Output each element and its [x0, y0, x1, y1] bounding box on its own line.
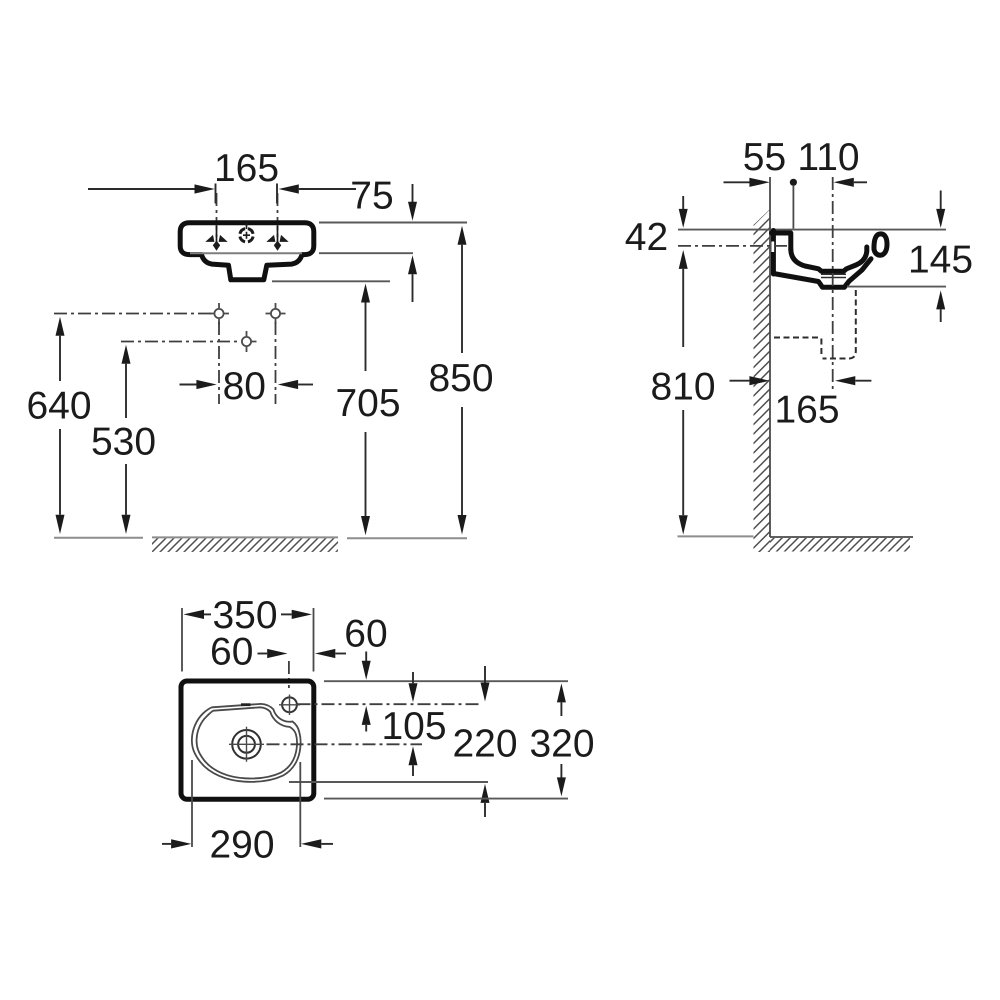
- dim 110 arrow: [834, 178, 854, 187]
- svg-text:55: 55: [743, 136, 786, 179]
- dim 145 down arrow: [940, 191, 942, 210]
- ground line right segment: [347, 537, 467, 539]
- dim 145 up arrow: [936, 290, 945, 309]
- dim 705 upper arrow and line: [361, 284, 370, 303]
- svg-text:145: 145: [908, 239, 973, 282]
- centerline left tap hole (dash-dot vertical): [216, 193, 218, 248]
- reference line drain bottom extended: [272, 280, 390, 282]
- dim 165 side left arrow: [730, 380, 750, 382]
- dim 350 left arrow: [184, 610, 205, 619]
- basin side front rim loop: [874, 234, 887, 255]
- reference line drain boss bottom: [847, 286, 946, 288]
- svg-text:165: 165: [774, 388, 839, 431]
- svg-text:290: 290: [209, 823, 274, 866]
- svg-text:850: 850: [428, 357, 493, 400]
- basin side back flange at wall: [771, 231, 776, 275]
- reference line square top extended: [324, 680, 568, 682]
- overflow mark plan: [241, 703, 251, 706]
- dim 165 left tail: [88, 188, 195, 190]
- dim 165 right arrowhead: [279, 184, 299, 193]
- dim 105 up arrow: [409, 746, 418, 765]
- bowl inner outline plan: [197, 707, 298, 778]
- dim 60 horizontal right-pointing arrow: [258, 653, 268, 655]
- hidden drain pipe top into wall: [774, 337, 820, 339]
- extension line plan left: [181, 608, 183, 672]
- dim 530: [122, 345, 131, 364]
- dim 290 left arrow: [162, 843, 171, 845]
- wall hatched band: [754, 209, 771, 552]
- dim 80 left arrow: [180, 384, 197, 386]
- dim 850 lower line and arrow: [461, 407, 463, 515]
- svg-text:80: 80: [223, 365, 266, 408]
- dim 60 vertical up arrow: [362, 706, 371, 725]
- wall surface line: [769, 177, 771, 537]
- dim 810 upper arrow and line: [679, 250, 688, 269]
- basin front rim inner line: [190, 252, 302, 254]
- dim 165 side right arrow: [835, 376, 855, 385]
- centerline right tap hole (dash-dot vertical): [277, 193, 279, 248]
- reference line rim top extended: [678, 229, 946, 231]
- svg-text:105: 105: [381, 705, 446, 748]
- basin front outline: [180, 223, 314, 280]
- reference line rim bottom extended: [319, 252, 413, 254]
- wall fixing centerline horizontal lower: [121, 341, 240, 343]
- extension line 290 left: [191, 760, 193, 847]
- drain centerline vertical: [832, 177, 834, 390]
- svg-text:530: 530: [91, 420, 156, 463]
- dim 320 down arrow: [560, 764, 562, 778]
- reference line square bottom extended: [324, 798, 568, 800]
- svg-text:165: 165: [214, 147, 279, 190]
- extension tick left of dim 165: [215, 184, 217, 204]
- svg-text:640: 640: [26, 384, 91, 427]
- floor hatched strip: [770, 538, 910, 552]
- hidden dash-dot line at fixing height: [678, 245, 788, 247]
- reference line bowl bottom extended: [289, 781, 488, 783]
- drain outer circle plan: [232, 730, 261, 759]
- floor line left of wall: [678, 535, 754, 537]
- ground hatched strip: [152, 536, 338, 538]
- extension line plan right: [313, 608, 315, 672]
- dim 42 down arrow: [682, 196, 684, 209]
- square basin body plan: [181, 681, 314, 799]
- wall fixing centerline horizontal upper: [54, 313, 213, 315]
- tap hole crosshair plan: [279, 695, 300, 716]
- tap hole symbol center: [240, 223, 253, 242]
- svg-text:320: 320: [529, 722, 594, 765]
- dim 55 arrow: [724, 181, 750, 183]
- svg-text:75: 75: [350, 175, 393, 218]
- dim 60 horizontal left-pointing arrow: [315, 649, 335, 658]
- extension line 290 right: [299, 762, 301, 847]
- bowl outer outline plan: [192, 704, 301, 782]
- dim 75 up arrow: [408, 255, 417, 274]
- dim 290 right arrow: [301, 839, 321, 848]
- drain crosshair plan: [229, 727, 264, 762]
- dim 320 up arrow: [557, 683, 566, 702]
- centerline below right hole: [275, 322, 277, 404]
- dim 350 right arrow: [281, 613, 292, 615]
- svg-text:60: 60: [210, 630, 253, 673]
- tap hole symbol left: [205, 226, 227, 251]
- dim 80 right arrow: [278, 380, 298, 389]
- dim 640: [56, 317, 65, 336]
- svg-text:220: 220: [452, 722, 517, 765]
- tap hole centerline horizontal plan: [298, 703, 480, 705]
- tap hole leader dot: [790, 179, 797, 186]
- dim 165 left arrowhead: [195, 184, 215, 193]
- tap hole symbol right: [266, 226, 288, 251]
- drain inner circle plan: [238, 736, 255, 753]
- svg-text:705: 705: [335, 382, 400, 425]
- reference line basin top extended: [319, 222, 467, 224]
- centerline below left hole: [218, 322, 220, 404]
- dim 705 lower line and arrow: [365, 432, 367, 516]
- ground line left segment: [54, 537, 143, 539]
- tap hole circle plan: [282, 697, 297, 712]
- dim 105 down arrow: [412, 672, 414, 683]
- wall fixing hole right: [266, 303, 286, 324]
- dim 75 down arrow: [412, 184, 414, 202]
- wall fixing hole left: [209, 303, 229, 324]
- hidden drain pipe bend step: [820, 339, 822, 358]
- svg-text:810: 810: [650, 365, 715, 408]
- dim 60 vertical down arrow: [365, 652, 367, 662]
- basin side underside slab: [773, 259, 871, 288]
- basin side top ledge and inner back wall: [772, 233, 791, 250]
- dim 220 down arrow: [484, 666, 486, 683]
- dim 810 lower line and arrow: [682, 410, 684, 515]
- tap hole centerline vertical plan: [288, 661, 290, 688]
- hidden drain pipe right edge: [823, 290, 856, 359]
- dim 220 up arrow: [481, 784, 490, 803]
- dim 165 right tail: [299, 188, 356, 190]
- basin side bowl interior: [791, 247, 867, 271]
- wall fixing hole center: [242, 331, 257, 352]
- drain boss flange lines: [821, 274, 846, 277]
- dim 850 upper arrow and line: [458, 226, 467, 245]
- extension tick right of dim 165: [276, 184, 278, 204]
- svg-text:60: 60: [344, 612, 387, 655]
- svg-text:110: 110: [797, 136, 859, 179]
- wall fixing slot on flange: [771, 242, 774, 253]
- svg-text:42: 42: [625, 216, 668, 259]
- floor surface right of wall: [770, 536, 913, 538]
- drain centerline horizontal plan: [267, 743, 423, 745]
